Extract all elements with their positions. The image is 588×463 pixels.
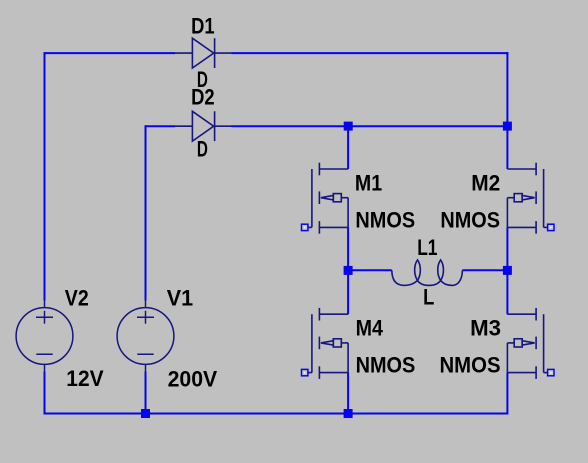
wire: M3 drain vertical from mid-right node (506, 270, 508, 314)
wire: left rail vertical (V2 minus to bottom rail) (44, 372, 46, 415)
svg-text:200V: 200V (168, 366, 218, 391)
diode D2 (174, 111, 232, 141)
node: junction M4 source / bottom rail (344, 409, 353, 418)
svg-text:L: L (423, 285, 434, 310)
wire: M1 source vertical to mid-left node (347, 227, 349, 270)
port (gate terminal) of M2 (548, 224, 554, 230)
svg-text:NMOS: NMOS (355, 207, 415, 232)
node: junction D2 line / right rail (503, 122, 512, 131)
svg-text:L1: L1 (417, 235, 437, 260)
inductor L1 (392, 260, 463, 286)
node: junction V1 minus / bottom rail (141, 409, 150, 418)
wire: M2 source vertical to mid-right node (506, 227, 508, 270)
transistor M2 (507, 163, 547, 234)
svg-text:D2: D2 (191, 84, 215, 109)
wire: top rail horizontal (V2+ to D1 anode) (44, 52, 176, 54)
wire: M4 source vertical to bottom rail (347, 373, 349, 414)
svg-text:NMOS: NMOS (440, 207, 500, 232)
svg-text:D1: D1 (191, 14, 215, 39)
port (gate terminal) of M4 (302, 369, 308, 375)
wire: D2 cathode horizontal to right rail (232, 125, 507, 127)
voltage source V1 (117, 300, 174, 372)
svg-text:M2: M2 (471, 170, 500, 195)
node: junction M2 source / M3 drain / L1 right (503, 266, 512, 275)
diode D1 (174, 38, 232, 68)
svg-text:V2: V2 (65, 286, 89, 311)
svg-text:V1: V1 (167, 286, 193, 311)
svg-text:NMOS: NMOS (440, 353, 501, 378)
svg-text:D: D (197, 137, 208, 162)
svg-text:M4: M4 (356, 315, 384, 340)
transistor M3 (507, 308, 547, 379)
port (gate terminal) of M1 (302, 224, 308, 230)
wire: inductor left lead horizontal (348, 269, 392, 271)
svg-text:M3: M3 (470, 315, 501, 340)
transistor M4 (308, 308, 348, 379)
wire: left rail vertical (top corner to V2 plus) (44, 52, 46, 300)
transistor M1 (308, 163, 348, 234)
wire: bottom rail horizontal (ground return) (44, 413, 508, 415)
node: junction M1 source / M4 drain / L1 left (344, 266, 353, 275)
wire: M4 drain vertical from mid-left node (347, 270, 349, 314)
svg-text:M1: M1 (355, 170, 382, 195)
port (gate terminal) of M3 (548, 369, 554, 375)
voltage source V2 (16, 300, 73, 372)
wire: D2 anode horizontal from V1 rail (146, 125, 176, 127)
wire: V1 rail vertical (D2 corner to V1 plus) (145, 125, 147, 300)
svg-text:12V: 12V (66, 366, 104, 391)
node: junction D2 cathode / M1 drain (344, 122, 353, 131)
wire: M3 source vertical to bottom rail corner (506, 373, 508, 415)
wire: right rail vertical (top corner through D2 node to M2 drain) (506, 52, 508, 169)
wire: M1 drain vertical from D2 node (347, 126, 349, 169)
wire: top rail horizontal (D1 cathode to right rail) (232, 52, 509, 54)
svg-text:NMOS: NMOS (356, 353, 416, 378)
wire: inductor right lead horizontal (462, 269, 507, 271)
wire: V1 rail vertical (V1 minus to bottom junction) (145, 372, 147, 414)
